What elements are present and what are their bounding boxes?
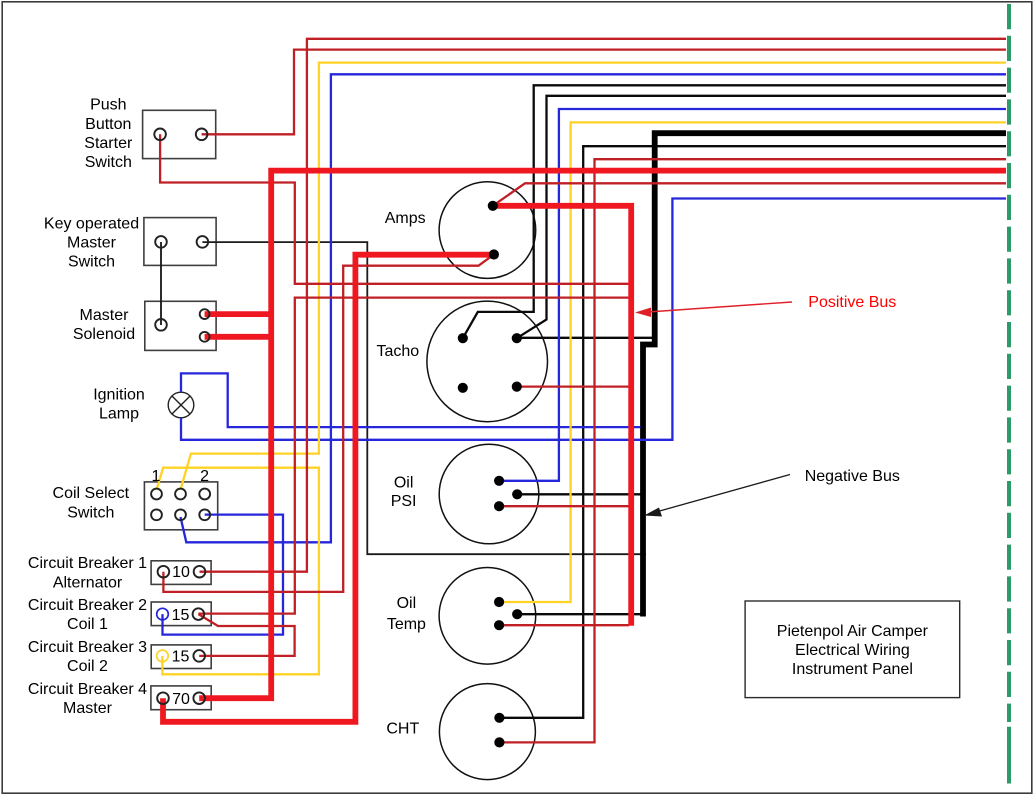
svg-text:Negative Bus: Negative Bus bbox=[805, 468, 900, 485]
wire: ignition lamp top to negative bus (blue) bbox=[181, 373, 641, 427]
gauge M2 circle: Tacho bbox=[427, 301, 548, 422]
svg-text:15: 15 bbox=[172, 649, 190, 666]
wire: Amps top dot to top red run y=183 (red) bbox=[493, 183, 1006, 206]
svg-text:Lamp: Lamp bbox=[99, 405, 139, 422]
gauge terminal dots bbox=[458, 201, 523, 748]
svg-text:PSI: PSI bbox=[391, 493, 417, 510]
Oil Temp terminal dots bbox=[494, 597, 504, 607]
wire: S2 right terminal ground run, down left side of gauges, to negative bus bbox=[202, 242, 646, 554]
wire: CB4 right terminal main feed riser to top thick red run y=170 bbox=[199, 171, 1006, 699]
switch S2 box: Key operated Master Switch bbox=[144, 218, 216, 266]
gauge M5 circle: CHT bbox=[439, 684, 535, 780]
wire: CB2 right terminal riser to positive bus y=297 (red) bbox=[198, 298, 629, 614]
CB4 terminal left bbox=[157, 692, 169, 704]
S2 terminal right bbox=[197, 236, 209, 248]
svg-text:Solenoid: Solenoid bbox=[73, 326, 135, 343]
svg-text:Key operated: Key operated bbox=[44, 216, 139, 233]
switch S3 box: Coil Select Switch bbox=[144, 482, 217, 530]
wire: CB3 right terminal link to CB2 right terminal (red) bbox=[198, 614, 294, 656]
svg-text:Positive Bus: Positive Bus bbox=[808, 294, 896, 311]
circuit breaker CB3 box bbox=[151, 645, 211, 669]
svg-text:Push: Push bbox=[90, 97, 126, 114]
wire: Tacho top-right dot to top black run y=96 bbox=[517, 96, 1006, 338]
wire: CHT top dot riser to top black run y=146 bbox=[499, 146, 1006, 718]
svg-text:Oil: Oil bbox=[394, 475, 414, 492]
wire: S3 row1 col2 to top yellow run y=62 (yellow) bbox=[180, 63, 1006, 490]
Tacho terminal dots bbox=[458, 333, 468, 343]
svg-text:Pietenpol Air Camper: Pietenpol Air Camper bbox=[777, 623, 929, 640]
wire: Oil PSI middle dot to negative bus bbox=[517, 493, 644, 495]
svg-text:Master: Master bbox=[63, 700, 113, 717]
CHT terminal dots bbox=[494, 713, 504, 723]
K1 terminal top right bbox=[200, 309, 210, 319]
lamp L1: Ignition Lamp symbol bbox=[168, 392, 194, 418]
svg-text:Switch: Switch bbox=[68, 254, 115, 271]
svg-text:2: 2 bbox=[200, 468, 209, 485]
wire: Tacho top-right dot to negative bus bbox=[517, 337, 653, 339]
S1 terminal left bbox=[154, 129, 166, 141]
svg-text:Coil 2: Coil 2 bbox=[67, 658, 108, 675]
circuit breaker CB2 box bbox=[151, 602, 211, 626]
solenoid K1 box: Master Solenoid bbox=[145, 301, 216, 350]
terminal circles of switches and breakers bbox=[151, 129, 210, 705]
wire: S2 left terminal to K1 left terminal (black link) bbox=[160, 242, 162, 325]
title block box bbox=[745, 601, 960, 698]
CB2 terminal left (blue) bbox=[157, 608, 169, 620]
svg-text:70: 70 bbox=[172, 691, 190, 708]
wire: Oil PSI top dot to top blue run y=109 (blue) bbox=[499, 109, 1006, 481]
svg-text:Master: Master bbox=[80, 307, 130, 324]
S1 terminal right bbox=[196, 129, 208, 141]
S2 terminal left bbox=[155, 236, 167, 248]
wire: Tacho top-left dot to top black run y=85 bbox=[463, 85, 1006, 338]
CB3 terminal right bbox=[193, 650, 205, 662]
svg-text:Alternator: Alternator bbox=[53, 574, 123, 591]
circuit breaker CB4 box bbox=[151, 686, 211, 710]
svg-text:Button: Button bbox=[85, 116, 131, 133]
CB1 terminal left bbox=[158, 566, 170, 578]
wire: CB1 left terminal to Amps bottom dot (red) bbox=[163, 255, 494, 592]
wire: Tacho bottom-right dot to positive bus (red) bbox=[517, 385, 629, 387]
battery feed dashed green line (net to battery) bbox=[1007, 4, 1011, 722]
S3 terminals row 1 bbox=[151, 489, 162, 500]
svg-text:Amps: Amps bbox=[385, 210, 426, 227]
wire: K1 top right terminal to main feed (thick red) bbox=[205, 311, 272, 317]
wire: ignition lamp bottom to top blue run y=198 (blue) bbox=[181, 199, 1006, 440]
wire: Oil Temp top dot to top yellow run y=122 (yellow) bbox=[499, 122, 1006, 602]
svg-text:Circuit Breaker 1: Circuit Breaker 1 bbox=[28, 555, 147, 572]
positive bus (thick red) from Amps top dot bbox=[493, 206, 631, 626]
Positive Bus leader arrow (red) bbox=[635, 302, 792, 317]
svg-text:Switch: Switch bbox=[67, 504, 114, 521]
svg-text:Master: Master bbox=[67, 235, 117, 252]
CB3 terminal left (yellow) bbox=[157, 650, 169, 662]
svg-text:Coil 1: Coil 1 bbox=[67, 616, 108, 633]
svg-text:Temp: Temp bbox=[387, 616, 426, 633]
svg-text:Electrical Wiring: Electrical Wiring bbox=[795, 642, 910, 659]
svg-text:Circuit Breaker 2: Circuit Breaker 2 bbox=[28, 597, 147, 614]
Negative Bus leader arrow (black) bbox=[644, 475, 790, 517]
svg-text:Circuit Breaker 3: Circuit Breaker 3 bbox=[28, 639, 147, 656]
svg-text:CHT: CHT bbox=[386, 720, 419, 737]
Oil PSI terminal dots bbox=[494, 476, 504, 486]
K1 terminal left bbox=[155, 319, 167, 331]
svg-text:10: 10 bbox=[172, 564, 190, 581]
negative bus (thick black) bbox=[643, 133, 1006, 616]
wire: CB1 right terminal to top red run y=38 (red) bbox=[200, 39, 1007, 572]
svg-text:Oil: Oil bbox=[397, 595, 417, 612]
wire: Oil Temp middle dot to negative bus bbox=[517, 613, 643, 615]
gauge M3 circle: Oil PSI bbox=[439, 444, 539, 544]
S3 terminals row 2 bbox=[151, 509, 162, 520]
K1 terminal bottom right bbox=[200, 332, 210, 342]
svg-text:Tacho: Tacho bbox=[376, 343, 419, 360]
svg-text:Switch: Switch bbox=[85, 154, 132, 171]
gauge M1 circle: Amps bbox=[439, 182, 536, 279]
wire: S3 row1 col1 to CB3 left terminal (yellow) bbox=[157, 468, 319, 675]
wire: S3 row2 col2 to top blue run y=74 (blue) bbox=[181, 74, 1007, 542]
svg-text:Ignition: Ignition bbox=[93, 386, 145, 403]
svg-text:Circuit Breaker 4: Circuit Breaker 4 bbox=[28, 681, 147, 698]
gauge M4 circle: Oil Temp bbox=[439, 568, 536, 665]
Amps terminal dots bbox=[488, 201, 498, 211]
CB2 terminal right bbox=[193, 608, 205, 620]
wire: K1 bottom right terminal to main feed (thick red) bbox=[205, 334, 272, 340]
svg-text:Starter: Starter bbox=[84, 135, 133, 152]
wire: CHT bottom dot riser to top red run y=159 (red) bbox=[499, 159, 1006, 742]
svg-text:15: 15 bbox=[172, 607, 190, 624]
svg-text:1: 1 bbox=[151, 468, 160, 485]
circuit breaker CB1 box bbox=[151, 561, 211, 585]
switch S1 box: Push Button Starter Switch bbox=[143, 110, 216, 158]
wire: S3 row2 col3 to CB2 left terminal (blue) bbox=[163, 515, 284, 635]
CB1 terminal right bbox=[194, 566, 206, 578]
svg-text:Coil Select: Coil Select bbox=[53, 485, 130, 502]
wire: Oil Temp bottom dot to positive bus (red) bbox=[499, 624, 629, 626]
wire: CB4 left terminal to Amps bottom dot (thick red) bbox=[163, 255, 494, 722]
CB4 terminal right bbox=[193, 692, 205, 704]
wire: Oil PSI bottom dot to positive bus (red) bbox=[499, 505, 629, 507]
svg-text:Instrument Panel: Instrument Panel bbox=[792, 661, 913, 678]
wire: S1 right terminal to top red run y=49 (red) bbox=[202, 50, 1006, 135]
wire: S1 left terminal down, across, to positive bus y=283 (red) bbox=[160, 134, 629, 283]
